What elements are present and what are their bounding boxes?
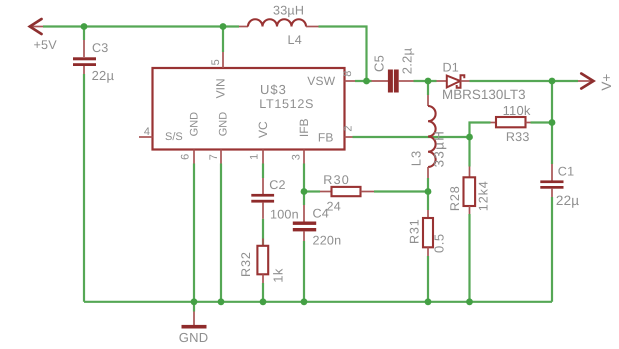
svg-text:L4: L4	[288, 33, 302, 47]
resistor R28	[464, 167, 476, 215]
wire top rail +5V to L4	[43, 25, 239, 27]
wire C5 to D1	[414, 80, 437, 82]
pin 8 stub VSW	[345, 80, 356, 82]
svg-text:GND: GND	[217, 112, 229, 137]
svg-text:R32: R32	[239, 251, 253, 277]
svg-text:6: 6	[180, 154, 192, 160]
pin 4 stub S/S	[139, 136, 153, 138]
ground symbol	[182, 312, 207, 329]
svg-text:22µ: 22µ	[92, 68, 115, 83]
resistor R33	[491, 117, 531, 127]
pin 2 stub FB	[345, 136, 353, 138]
resistor R30	[320, 187, 374, 196]
svg-text:L3: L3	[408, 150, 423, 166]
svg-text:IFB: IFB	[297, 118, 311, 137]
svg-text:33µH: 33µH	[273, 4, 304, 18]
svg-text:220n: 220n	[313, 234, 342, 248]
svg-text:110k: 110k	[503, 103, 531, 118]
wire R31 to ground rail	[427, 256, 429, 302]
inductor L3	[428, 95, 436, 178]
svg-text:1k: 1k	[271, 268, 286, 283]
svg-text:7: 7	[208, 154, 220, 160]
supply arrow V+	[578, 74, 593, 89]
wire pin1 to C2	[262, 164, 264, 179]
junction node pin5	[220, 23, 227, 30]
capacitor C1	[540, 164, 563, 197]
wire pin5 up	[222, 27, 224, 53]
wire L3 bottom to node	[427, 178, 429, 192]
svg-text:2.2µ: 2.2µ	[400, 48, 415, 75]
pin 1 stub	[262, 150, 264, 164]
junction node R30/L3/R31	[425, 188, 432, 195]
capacitor C4	[293, 205, 316, 241]
svg-text:R33: R33	[506, 130, 530, 144]
pin 3 stub	[303, 150, 305, 164]
junction node FB/R28	[466, 134, 473, 141]
svg-text:VIN: VIN	[214, 78, 228, 98]
wire pin7 gnd column	[220, 164, 222, 302]
svg-text:VSW: VSW	[307, 74, 335, 88]
op-amp U$3 LT1512S box	[153, 68, 345, 150]
wire gnd symbol stub	[193, 302, 195, 312]
wire C2 to R32	[262, 219, 264, 246]
svg-text:3: 3	[290, 154, 302, 160]
pin 6 stub	[193, 150, 195, 164]
svg-text:FB: FB	[318, 131, 334, 145]
svg-text:GND: GND	[179, 330, 209, 345]
pin 5 stub	[222, 52, 224, 68]
svg-text:V+: V+	[599, 74, 614, 91]
svg-text:R28: R28	[448, 185, 462, 211]
svg-text:22µ: 22µ	[556, 193, 579, 208]
wire D1 to V+	[470, 80, 579, 82]
wire node VSW down to L3	[427, 81, 429, 95]
svg-text:100n: 100n	[270, 208, 299, 222]
wire R33 left to FB node	[470, 123, 491, 138]
svg-text:4: 4	[144, 126, 150, 138]
wire FB net	[353, 136, 470, 138]
junction gnd rail pin7	[218, 298, 225, 305]
svg-text:5: 5	[210, 59, 222, 65]
junction gnd rail C4	[301, 298, 308, 305]
wire C1 to ground rail	[551, 197, 553, 302]
svg-text:D1: D1	[443, 61, 460, 75]
diode D1	[437, 75, 470, 87]
svg-text:33µH: 33µH	[432, 130, 447, 167]
capacitor C3	[73, 40, 96, 74]
svg-text:C5: C5	[371, 55, 386, 72]
wire +5V column left	[83, 27, 85, 41]
wire V+ column down to C1	[551, 81, 553, 164]
wire FB node down to R28	[468, 137, 470, 167]
junction node +5V/C3	[81, 23, 88, 30]
junction gnd rail pin6	[191, 298, 198, 305]
svg-text:GND: GND	[189, 112, 201, 137]
svg-text:2: 2	[343, 125, 355, 131]
wire ground rail	[84, 301, 552, 303]
junction node VSW corner	[363, 78, 370, 85]
wire L4 to VSW corner	[319, 27, 367, 82]
svg-text:C4: C4	[313, 207, 330, 221]
wire VSW pin to C5	[355, 80, 372, 82]
junction gnd rail R28	[466, 298, 473, 305]
pin 7 stub	[220, 150, 222, 164]
resistor R32	[257, 239, 268, 284]
svg-text:+5V: +5V	[34, 38, 58, 52]
svg-text:LT1512S: LT1512S	[259, 97, 314, 111]
wire C4 to ground rail	[303, 241, 305, 302]
wire R32 to ground rail	[262, 283, 264, 302]
svg-text:1: 1	[249, 154, 261, 160]
wire pin3 to node	[303, 164, 305, 206]
svg-text:MBRS130LT3: MBRS130LT3	[442, 87, 526, 102]
wire L3 node to R31	[427, 192, 429, 211]
capacitor C2	[251, 178, 274, 219]
svg-text:U$3: U$3	[260, 82, 287, 97]
svg-text:12k4: 12k4	[476, 180, 490, 211]
svg-text:C3: C3	[92, 41, 109, 55]
svg-text:C1: C1	[558, 164, 575, 178]
wire R30 to L3 node	[374, 190, 428, 192]
junction node D1/V+	[549, 78, 556, 85]
svg-text:0.5: 0.5	[432, 233, 447, 253]
junction node R33/C1 column	[549, 119, 556, 126]
svg-text:VC: VC	[256, 121, 270, 138]
inductor L4	[239, 19, 319, 26]
capacitor C5	[372, 70, 414, 93]
junction node C5/L3	[425, 78, 432, 85]
wire pin6 gnd column	[193, 164, 195, 302]
junction gnd rail R32	[260, 298, 267, 305]
resistor R31	[423, 210, 433, 256]
junction gnd rail R31	[425, 298, 432, 305]
svg-text:R30: R30	[323, 173, 350, 187]
svg-text:C2: C2	[269, 178, 286, 192]
svg-text:R31: R31	[408, 218, 422, 244]
junction node IFB/R30/C4	[301, 188, 308, 195]
supply arrow +5V	[30, 19, 43, 34]
wire R33 right to V+ column	[531, 121, 553, 123]
svg-text:8: 8	[342, 71, 354, 77]
svg-text:S/S: S/S	[165, 131, 183, 143]
wire node IFB to R30	[304, 190, 320, 192]
wire R28 to ground rail	[468, 214, 470, 302]
wire C3 down left side	[83, 74, 85, 302]
